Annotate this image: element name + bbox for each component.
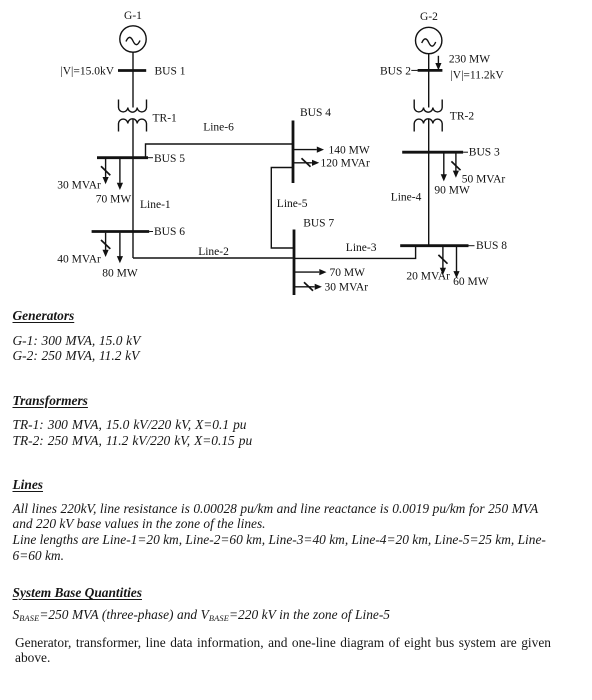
svg-text:G-2: G-2: [420, 11, 438, 23]
svg-text:30 MVAr: 30 MVAr: [325, 282, 369, 294]
svg-text:70 MW: 70 MW: [330, 267, 366, 279]
svg-text:BUS 4: BUS 4: [300, 107, 331, 119]
svg-text:50 MVAr: 50 MVAr: [462, 174, 506, 186]
svg-text:BUS 6: BUS 6: [154, 226, 185, 238]
svg-text:80 MW: 80 MW: [102, 268, 138, 280]
svg-text:Line-1: Line-1: [140, 199, 171, 211]
svg-text:70 MW: 70 MW: [96, 194, 132, 206]
svg-text:|V|=11.2kV: |V|=11.2kV: [451, 69, 505, 81]
svg-text:20 MVAr: 20 MVAr: [406, 271, 450, 283]
svg-text:60 MW: 60 MW: [453, 276, 489, 288]
svg-text:|V|=15.0kV: |V|=15.0kV: [60, 66, 114, 78]
svg-text:BUS 7: BUS 7: [303, 218, 334, 230]
svg-text:BUS 5: BUS 5: [154, 153, 185, 165]
svg-text:120 MVAr: 120 MVAr: [321, 158, 370, 170]
svg-text:30 MVAr: 30 MVAr: [57, 180, 101, 192]
svg-text:Line-6: Line-6: [203, 122, 234, 134]
svg-text:TR-2: TR-2: [450, 110, 475, 122]
svg-text:G-1: G-1: [124, 10, 142, 22]
svg-text:40 MVAr: 40 MVAr: [57, 254, 101, 266]
svg-text:BUS 2: BUS 2: [380, 66, 411, 78]
svg-text:140 MW: 140 MW: [329, 145, 370, 157]
svg-text:BUS 8: BUS 8: [476, 240, 507, 252]
svg-text:Line-4: Line-4: [391, 191, 422, 203]
svg-text:Line-2: Line-2: [198, 246, 229, 258]
svg-text:230 MW: 230 MW: [449, 54, 490, 66]
svg-text:90 MW: 90 MW: [434, 185, 470, 197]
svg-text:BUS 1: BUS 1: [155, 66, 186, 78]
svg-text:TR-1: TR-1: [153, 113, 178, 125]
svg-text:Line-3: Line-3: [346, 242, 377, 254]
svg-text:Line-5: Line-5: [277, 198, 308, 210]
svg-text:BUS 3: BUS 3: [469, 147, 500, 159]
